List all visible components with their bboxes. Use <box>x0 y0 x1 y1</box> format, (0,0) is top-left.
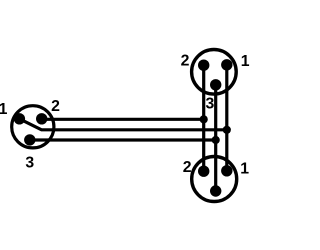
svg-text:2: 2 <box>183 159 192 176</box>
svg-text:3: 3 <box>206 96 215 113</box>
svg-text:2: 2 <box>51 98 60 115</box>
svg-text:1: 1 <box>241 53 250 70</box>
svg-text:1: 1 <box>0 101 8 118</box>
svg-text:3: 3 <box>25 154 34 171</box>
svg-text:2: 2 <box>181 53 190 70</box>
svg-text:1: 1 <box>240 160 249 177</box>
